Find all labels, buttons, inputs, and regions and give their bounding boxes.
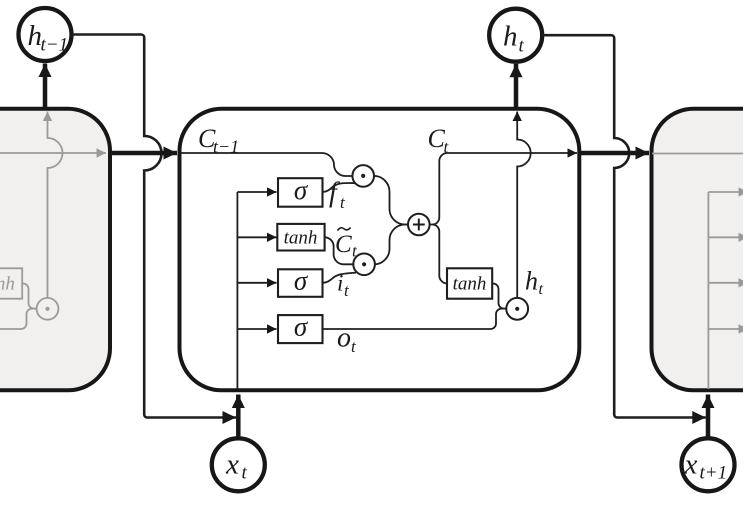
svg-text:i: i xyxy=(337,271,343,296)
node x_t circle xyxy=(212,438,265,491)
wire: gray gate branch 4 (next cell) xyxy=(708,328,743,330)
node h_t output arrow (thick) xyxy=(514,64,519,107)
tanh gate box xyxy=(277,224,324,251)
node h_t circle xyxy=(489,9,542,62)
svg-text:t: t xyxy=(242,463,248,484)
wire: gray C line in previous cell xyxy=(0,152,106,154)
wire: C_{t-1} internal line curving to forget product xyxy=(181,153,352,176)
wire: h_{t-1} feedback to x_t junction, with hop xyxy=(72,35,237,418)
svg-text:t: t xyxy=(519,36,525,57)
tanh box (gray, previous cell) xyxy=(0,268,22,298)
svg-text:C: C xyxy=(335,231,352,258)
wire: gray C line in next cell xyxy=(652,153,743,155)
wire: adder down to tanh2 xyxy=(432,225,447,284)
svg-text:x: x xyxy=(684,449,698,481)
svg-text:tanh: tanh xyxy=(453,274,487,295)
sigma gate 1 (forget) xyxy=(278,178,323,207)
sigma gate 3 (output) xyxy=(278,315,323,343)
dot-product circle (gray, previous cell) xyxy=(37,298,59,320)
wire: gray gate branch 2 (next cell) xyxy=(708,236,743,238)
node x_{t+1} input arrow (thick) xyxy=(706,395,711,438)
wire: gray o line to dot-product xyxy=(0,309,37,329)
main LSTM cell body xyxy=(180,109,580,391)
arrow: C_t into next cell (thick) xyxy=(581,151,649,156)
wire: gate branch to sigma 1 xyxy=(237,191,276,193)
svg-text:σ: σ xyxy=(294,175,309,205)
sigma gate 2 (input) xyxy=(278,269,323,297)
wire: tanh2 to output product xyxy=(492,284,506,309)
wire: gate branch to sigma 2 xyxy=(237,282,276,284)
node x_{t+1} circle xyxy=(682,438,735,491)
svg-text:σ: σ xyxy=(294,312,309,342)
wire: output product up through hop to cell top xyxy=(517,112,531,298)
wire: tanh to input product, label C~_t xyxy=(325,237,354,264)
wire: gray input line in next cell xyxy=(707,192,709,389)
wire: h_t feedback to x_{t+1} junction, with hop xyxy=(542,35,706,417)
wire: gray gate branch 1 (next cell) xyxy=(708,191,743,193)
adder circle xyxy=(408,214,430,236)
svg-text:o: o xyxy=(337,323,351,354)
wire: sigma1 to forget product, label f_t xyxy=(323,183,356,192)
wire: input product to adder xyxy=(375,225,408,265)
wire: adder up to C_t line with arrow at cell edge xyxy=(430,153,577,225)
svg-text:tanh: tanh xyxy=(284,228,318,249)
svg-text:t: t xyxy=(539,281,544,298)
svg-text:t+1: t+1 xyxy=(700,463,728,484)
node h_{t-1} circle xyxy=(19,8,72,61)
wire: main input line xyxy=(236,192,238,389)
input dot-product circle xyxy=(353,253,375,275)
arrow: C_{t-1} into main cell (thick) xyxy=(112,151,177,156)
node x_t input arrow (thick) xyxy=(236,395,241,438)
svg-text:σ: σ xyxy=(294,266,309,296)
wire: gray tanh to dot-product xyxy=(22,284,36,309)
wire: gate branch to sigma 3 xyxy=(237,328,276,330)
wire: gate branch to tanh xyxy=(237,236,276,238)
wire: gray h line with hop in previous cell xyxy=(48,112,63,298)
wire: sigma2 to input product, label i_t xyxy=(323,273,357,283)
next LSTM cell (grayed) xyxy=(652,109,743,391)
forget dot-product circle xyxy=(352,165,374,187)
svg-text:h: h xyxy=(503,21,518,53)
svg-text:tanh: tanh xyxy=(0,274,15,295)
output dot-product circle xyxy=(506,298,528,320)
wire: forget product to adder xyxy=(374,176,408,225)
wire: gray gate branch 3 (next cell) xyxy=(708,282,743,284)
wire: o line from sigma3 to output product, label o_t xyxy=(323,309,507,329)
svg-text:x: x xyxy=(225,449,239,481)
node h_{t-1} output arrow (thick) xyxy=(43,64,48,108)
previous LSTM cell (grayed) xyxy=(0,109,110,391)
svg-text:h: h xyxy=(525,267,538,296)
svg-text:t−1: t−1 xyxy=(41,35,69,56)
tanh2 box xyxy=(447,268,492,298)
